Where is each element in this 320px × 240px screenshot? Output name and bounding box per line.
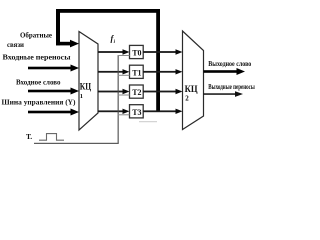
output word arrow xyxy=(204,70,238,73)
trigger T2 xyxy=(130,85,144,98)
svg-text:КЦ: КЦ xyxy=(80,81,91,91)
svg-text:Выходное слово: Выходное слово xyxy=(208,60,251,68)
clock vertical distribution line xyxy=(118,55,119,144)
svg-text:Входное слово: Входное слово xyxy=(16,79,61,87)
input word arrow xyxy=(28,90,72,93)
wire KC1 to T0 xyxy=(98,51,123,53)
svg-text:Т0: Т0 xyxy=(132,49,141,58)
svg-text:Входные переносы: Входные переносы xyxy=(3,54,72,62)
feedback bus right vertical segment xyxy=(156,9,160,112)
clock horizontal line from pulse xyxy=(34,143,119,144)
svg-text:Т.: Т. xyxy=(26,132,32,141)
clock stub to T3 xyxy=(118,114,130,115)
trigger T0 xyxy=(130,45,144,58)
trigger T3 xyxy=(130,105,144,118)
svg-text:1: 1 xyxy=(80,93,83,100)
wire T0 to KC2 xyxy=(143,51,176,53)
wire KC1 to T2 xyxy=(98,91,123,93)
control bus arrow xyxy=(28,111,72,114)
svg-text:связи: связи xyxy=(7,41,24,49)
scan artifact faint line near T3 xyxy=(139,121,157,122)
clock stub to T0 xyxy=(118,55,130,56)
combinational circuit KC2 (trapezoid) xyxy=(183,31,204,130)
svg-text:Выходные переносы: Выходные переносы xyxy=(208,83,255,91)
output carries arrow xyxy=(204,93,236,95)
svg-text:Т2: Т2 xyxy=(132,88,141,97)
svg-text:Обратные: Обратные xyxy=(20,31,52,39)
feedback bus top horizontal segment xyxy=(56,9,160,13)
svg-text:Т3: Т3 xyxy=(132,108,141,117)
svg-text:2: 2 xyxy=(185,94,189,102)
wire T3 to KC2 xyxy=(143,110,176,112)
wire KC1 to T1 xyxy=(98,71,123,73)
input carries arrow xyxy=(28,67,72,70)
trigger T1 xyxy=(130,65,144,78)
wire T2 to KC2 xyxy=(143,91,176,93)
clock stub to T1 xyxy=(118,75,130,76)
clock stub to T2 xyxy=(118,95,130,96)
combinational circuit KC1 (trapezoid) xyxy=(79,32,98,131)
feedback bus left vertical segment xyxy=(56,9,60,45)
wire KC1 to T3 xyxy=(98,110,123,112)
wire T1 to KC2 xyxy=(143,71,176,73)
clock pulse symbol xyxy=(39,134,64,141)
svg-text:Т1: Т1 xyxy=(132,68,141,77)
svg-text:Шина управления (Y): Шина управления (Y) xyxy=(2,98,77,106)
feedback arrow into KC1 xyxy=(56,42,71,46)
